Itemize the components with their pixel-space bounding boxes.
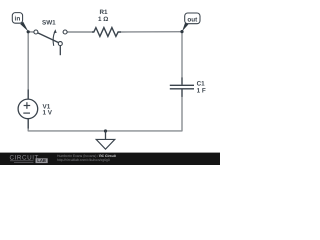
C1 bottom plate bbox=[170, 88, 194, 90]
SW1 pole contact bbox=[34, 30, 38, 34]
C1 top lead bbox=[181, 78, 183, 85]
footer attribution bar bbox=[0, 153, 220, 165]
V1 body circle bbox=[18, 99, 38, 119]
svg-text:LAB: LAB bbox=[37, 158, 46, 163]
junction ground node bbox=[104, 129, 107, 132]
SW1 actuation arrow bbox=[53, 32, 55, 46]
svg-text:R1: R1 bbox=[99, 9, 108, 16]
svg-text:SW1: SW1 bbox=[42, 19, 56, 26]
C1 top plate bbox=[170, 84, 194, 86]
V1 minus sign bbox=[23, 112, 30, 114]
svg-text:1 V: 1 V bbox=[43, 109, 53, 116]
SW1 top throw contact bbox=[63, 30, 67, 34]
junction node out bbox=[180, 30, 183, 33]
V1 plus sign bbox=[24, 105, 31, 107]
C1 bottom lead bbox=[181, 89, 183, 97]
svg-text:C1: C1 bbox=[197, 80, 206, 87]
wire: C1 bottom lead down, bottom rail to V1 negative lead bbox=[28, 97, 182, 131]
node flag out bbox=[182, 13, 200, 31]
svg-text:1 Ω: 1 Ω bbox=[98, 16, 108, 23]
resistor R1 bbox=[92, 9, 121, 36]
voltage source V1 bbox=[18, 90, 53, 129]
SW1 blade bbox=[38, 33, 59, 43]
svg-text:out: out bbox=[187, 17, 198, 24]
junction node in bbox=[27, 30, 30, 33]
svg-text:CIRCUIT: CIRCUIT bbox=[10, 154, 39, 161]
V1 bottom lead bbox=[27, 119, 29, 129]
wire: node out down to C1 top lead bbox=[181, 33, 183, 78]
wire: R1 right lead to node out bbox=[121, 31, 182, 33]
wire: node in to SW1 pole bbox=[28, 31, 34, 33]
svg-text:in: in bbox=[15, 16, 21, 23]
switch SW1 bbox=[34, 19, 67, 55]
wire: SW1 top throw to R1 left lead bbox=[67, 31, 92, 33]
SW1 bottom throw contact bbox=[58, 42, 62, 46]
ground bbox=[96, 131, 115, 149]
SW1 bottom throw stub bbox=[59, 46, 61, 56]
wire: node in down to V1 positive lead bbox=[27, 33, 29, 90]
svg-text:1 F: 1 F bbox=[197, 88, 206, 95]
capacitor C1 bbox=[170, 78, 206, 97]
svg-text:http://circuitlab.com/c/kuhwn/: http://circuitlab.com/c/kuhwn/zg6g0 bbox=[57, 158, 110, 162]
V1 top lead bbox=[27, 90, 29, 99]
node flag in bbox=[12, 13, 28, 32]
